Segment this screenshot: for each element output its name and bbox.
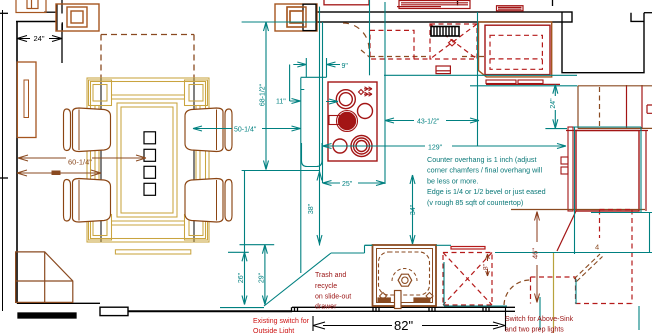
teal vert A x302 bbox=[301, 78, 305, 273]
arrow 46 bottom bbox=[535, 294, 540, 303]
post P2 inner redraw bbox=[290, 11, 303, 23]
wire left outer tick1 bbox=[0, 12, 8, 14]
dashed red upper counter bbox=[370, 24, 477, 59]
black placemat squares bbox=[144, 132, 156, 196]
arrowhead left82 bbox=[313, 322, 325, 329]
svg-text:38": 38" bbox=[308, 203, 315, 214]
control diamond bbox=[359, 90, 364, 95]
cabinet inner line bbox=[31, 0, 33, 9]
svg-text:8": 8" bbox=[483, 263, 490, 270]
DOOR ARC top-center brown dashed bbox=[343, 23, 485, 58]
dim line a bbox=[18, 157, 146, 159]
sink basin dashed bbox=[379, 252, 430, 295]
chair bottom-left seat bbox=[73, 179, 111, 223]
node dim extension x194 bbox=[193, 77, 195, 242]
sink bottom bar right bbox=[413, 297, 430, 302]
chair top-left seat bbox=[73, 108, 111, 152]
table outer frame bbox=[87, 78, 209, 242]
hutch inner detail bbox=[24, 80, 29, 118]
red shelf line bbox=[578, 127, 652, 129]
burner BR outer bbox=[351, 136, 372, 157]
sink drain arc dashed bbox=[392, 269, 417, 282]
red strip cabinet bbox=[568, 127, 573, 211]
sink bottom bar left bbox=[377, 297, 391, 302]
small red box inner line bbox=[436, 70, 450, 72]
dim 11 leader b bbox=[326, 99, 338, 104]
post TR bbox=[185, 80, 208, 106]
red counter line under fridge bbox=[486, 83, 560, 85]
arrowhead right bbox=[52, 36, 62, 42]
wall right jamb bbox=[631, 13, 644, 22]
burner BR mid bbox=[354, 138, 370, 154]
svg-text:50-1/4": 50-1/4" bbox=[234, 127, 257, 134]
placemat 4 bbox=[144, 183, 156, 195]
door threshold rect bbox=[100, 307, 128, 315]
grill box bbox=[431, 27, 459, 37]
pan handle bbox=[329, 116, 340, 125]
dw top bar bbox=[451, 247, 485, 250]
dim 38 arrows bbox=[317, 172, 322, 245]
teal vert x266 dim 68.5 bbox=[265, 22, 267, 170]
RIGHT SIDE FIXTURES bbox=[511, 85, 652, 251]
brown counter line right bbox=[511, 209, 645, 211]
wire left outer line bbox=[2, 10, 4, 311]
brown dim 60-1/4 upper bbox=[18, 155, 146, 161]
range hood rect bbox=[399, 1, 470, 9]
existing switch note bbox=[253, 318, 310, 333]
svg-text:on slide-out: on slide-out bbox=[315, 294, 351, 301]
dashed box B right bbox=[575, 277, 577, 304]
arrow 26 top bbox=[242, 252, 247, 261]
dashed counter box left bbox=[370, 30, 414, 59]
teal vert x478 bbox=[477, 12, 479, 146]
table rail top bbox=[111, 95, 184, 99]
dishwasher X diag 1 bbox=[430, 24, 477, 59]
dim 24r line bbox=[554, 85, 556, 129]
burner filled ring bbox=[337, 111, 358, 132]
burner BL bbox=[333, 139, 347, 153]
dim 29 line bbox=[264, 245, 266, 305]
arrow 46 top bbox=[535, 212, 540, 221]
arrow 26 bottom bbox=[242, 296, 247, 305]
arrow 29 bottom bbox=[262, 296, 267, 305]
cabinet top-left corner partial bbox=[16, 0, 46, 13]
olive vertical line bbox=[553, 253, 555, 333]
svg-text:24": 24" bbox=[550, 98, 557, 109]
arrow right a bbox=[136, 155, 146, 161]
teal box around red box bbox=[574, 127, 576, 254]
dashed red lower-right bbox=[531, 210, 633, 304]
door swing tail bbox=[361, 50, 370, 58]
svg-text:Switch for Above-Sink: Switch for Above-Sink bbox=[505, 316, 574, 323]
handle knob 2 bbox=[561, 167, 568, 174]
teal vert right end bbox=[649, 213, 651, 253]
grill black striped bbox=[431, 27, 459, 37]
wall top-left horizontal bbox=[16, 21, 56, 23]
wall left vertical bbox=[16, 22, 18, 304]
arrow 29 top bbox=[262, 245, 267, 254]
svg-text:and two prep lights: and two prep lights bbox=[505, 327, 564, 333]
dashed box B top bbox=[531, 276, 576, 278]
teal diag counter bbox=[264, 253, 331, 306]
svg-text:Trash and: Trash and bbox=[315, 272, 346, 279]
small red box below dishwasher bbox=[436, 66, 450, 74]
chair top-right seat bbox=[185, 108, 223, 152]
brown double dashed diagonal bbox=[574, 254, 603, 282]
wall band upper line left bbox=[44, 11, 57, 13]
svg-text:Edge is 1/4 or 1/2 bevel or ju: Edge is 1/4 or 1/2 bevel or just eased bbox=[427, 187, 546, 196]
counter U end bbox=[302, 143, 323, 167]
grill stripes bbox=[434, 27, 455, 36]
chair top-right seat line bbox=[216, 110, 218, 151]
arrow 129 right bbox=[557, 144, 566, 149]
fridge brown outer bbox=[479, 22, 552, 77]
arrow 50.25 right bbox=[292, 126, 301, 131]
dim 8 line bbox=[487, 254, 489, 276]
svg-text:drawer: drawer bbox=[315, 304, 337, 311]
brown dim b lower bbox=[17, 170, 101, 176]
dw dashed box bbox=[443, 253, 492, 306]
dim 129 line bbox=[323, 145, 567, 147]
node dim extension x101 bbox=[100, 77, 102, 242]
svg-text:34": 34" bbox=[410, 204, 417, 215]
dim 26 extension bbox=[228, 251, 249, 253]
brown dashed vert bbox=[599, 87, 601, 128]
column post P1 middle bbox=[67, 7, 87, 27]
arrow 43.5 left bbox=[385, 118, 394, 123]
sink top counter line bbox=[365, 244, 373, 246]
pilaster U top bbox=[301, 58, 327, 77]
column post P1 outer bbox=[56, 4, 99, 31]
chair top-left back bbox=[64, 109, 71, 151]
teal vert x370 bbox=[369, 0, 371, 75]
center solid mark bbox=[52, 171, 60, 175]
burner mid-right bbox=[358, 104, 373, 119]
wall notch below P1 bbox=[61, 22, 63, 30]
trash note bbox=[315, 272, 351, 311]
dw X 1 bbox=[443, 253, 492, 306]
column post P1 inner bbox=[71, 11, 83, 23]
cabinet inner bbox=[27, 0, 38, 9]
dim 50.25 line bbox=[193, 128, 301, 130]
teal vert x576 low bbox=[575, 279, 577, 304]
column post P2 outer bbox=[275, 4, 317, 31]
SINK bbox=[373, 245, 437, 309]
BROWN-FURNITURE-LEFT bbox=[16, 0, 317, 138]
svg-text:43-1/2": 43-1/2" bbox=[417, 119, 440, 126]
arrow 68.5 top bbox=[264, 22, 269, 31]
COOKTOP bbox=[328, 82, 377, 161]
red vent inner lines bbox=[498, 7, 522, 9]
chair top-left seat line bbox=[78, 110, 80, 151]
door swing arc bbox=[343, 23, 369, 49]
note paragraph bbox=[427, 155, 546, 207]
svg-text:25": 25" bbox=[342, 181, 353, 188]
wall top band bbox=[316, 12, 572, 22]
TEAL DIMENSION NETWORK bbox=[193, 0, 652, 330]
table outer frame inner bbox=[91, 82, 206, 239]
post BL bbox=[89, 215, 112, 241]
svg-text:29": 29" bbox=[259, 272, 266, 283]
svg-text:60-1/4": 60-1/4" bbox=[68, 158, 92, 167]
arrow 8 bottom bbox=[486, 271, 490, 276]
teal horiz y74 bbox=[384, 74, 577, 76]
svg-text:recycle: recycle bbox=[315, 283, 337, 290]
red counter line top-left bbox=[324, 0, 369, 5]
sink diamond left bbox=[380, 293, 387, 300]
arrow 25 right bbox=[376, 181, 385, 186]
svg-text:68-1/2": 68-1/2" bbox=[260, 83, 267, 106]
red diamond bbox=[449, 40, 456, 46]
teal ext y170.5 bbox=[242, 170, 320, 172]
dim line 24 bbox=[17, 38, 62, 40]
window mullion pair 4 bbox=[483, 307, 489, 311]
teal counter y252 bbox=[495, 252, 652, 254]
chair bottom-right back bbox=[225, 180, 232, 222]
table rail left bbox=[95, 105, 99, 215]
counter horiz y253 bbox=[331, 252, 365, 254]
burner BR inner bbox=[356, 141, 367, 152]
arrow 68.5 bottom bbox=[264, 161, 269, 170]
dim 9 left arrow bbox=[293, 62, 306, 67]
arrow right b bbox=[91, 170, 101, 176]
wall end cap left of opening bbox=[561, 12, 563, 22]
DIM-82 bottom black bbox=[313, 307, 506, 331]
sink drain circle bbox=[402, 277, 408, 283]
placemat 3 bbox=[144, 166, 156, 178]
column post P2 inner bbox=[290, 11, 303, 23]
chair bottom-left back bbox=[64, 180, 71, 222]
dim line 82 bbox=[323, 325, 498, 327]
dim 25 line bbox=[323, 182, 386, 184]
fridge red box bbox=[485, 25, 550, 74]
cooktop body bbox=[328, 82, 377, 161]
RED KITCHEN TOP bbox=[324, 0, 523, 74]
svg-text:be less or more.: be less or more. bbox=[427, 176, 479, 185]
red vert x637 bbox=[641, 85, 643, 129]
bench inner horizontal bbox=[16, 280, 73, 282]
dim 43.5 line bbox=[385, 120, 479, 122]
dashed island top bbox=[600, 209, 633, 211]
svg-text:corner chamfers / final overha: corner chamfers / final overhang will bbox=[427, 166, 542, 175]
window mullion pair 2 bbox=[373, 307, 379, 311]
dark red dim 46 bbox=[486, 212, 540, 303]
sink drain hex bbox=[398, 274, 412, 286]
svg-text:Existing switch for: Existing switch for bbox=[253, 318, 310, 325]
dashed soffit top bbox=[101, 34, 194, 36]
wall single line mid bbox=[128, 310, 292, 312]
chair bottom-left seat line bbox=[78, 180, 80, 221]
red vert right x646 bbox=[645, 131, 647, 212]
bench inner vertical bbox=[44, 252, 46, 303]
post BR bbox=[185, 215, 208, 241]
svg-text:129": 129" bbox=[428, 145, 443, 152]
fridge door bar right bbox=[518, 80, 543, 84]
svg-text:4: 4 bbox=[595, 243, 599, 252]
chair bottom-right seat line bbox=[216, 180, 218, 221]
fridge dashed mid line bbox=[490, 58, 542, 60]
wall cap at post P1 bbox=[56, 4, 58, 30]
arrow 43.5 right bbox=[470, 118, 479, 123]
dishwasher-top dashed box bbox=[430, 24, 477, 59]
range hood lines bbox=[397, 3, 468, 7]
table rail right bbox=[196, 105, 200, 215]
teal vert C x319 bbox=[322, 22, 324, 183]
sink inner bbox=[377, 249, 433, 303]
wall bottom left upper line bbox=[17, 302, 100, 304]
dishwasher X diag 2 bbox=[430, 24, 477, 59]
wall tick x458 top bbox=[457, 0, 459, 6]
window mullion pair 3 bbox=[429, 307, 435, 311]
dashed island bottom bbox=[576, 303, 633, 305]
placemat 2 bbox=[144, 149, 156, 161]
red vert x625 bbox=[626, 85, 628, 129]
DIM-24 top-left black bbox=[17, 36, 62, 42]
svg-text:26": 26" bbox=[238, 272, 245, 283]
red ledge line bbox=[566, 130, 648, 132]
above sink switch note bbox=[505, 316, 574, 333]
counter y245 left of sink bbox=[365, 244, 373, 246]
teal wall line trash region bbox=[220, 307, 264, 309]
svg-text:24": 24" bbox=[34, 34, 45, 43]
svg-text:9": 9" bbox=[342, 63, 349, 70]
counter step bbox=[364, 245, 366, 253]
burner TL inner bbox=[339, 93, 352, 106]
arrowhead left bbox=[17, 36, 27, 42]
teal vert x385 bbox=[384, 2, 386, 184]
dw X 2 bbox=[443, 253, 492, 306]
sink outer bbox=[373, 245, 437, 306]
dashed brown under dishwasher bbox=[370, 56, 485, 58]
dashed ceiling rect brown bbox=[101, 35, 194, 79]
teal horiz y22 bbox=[242, 21, 316, 23]
red bracket far right bbox=[647, 105, 652, 113]
red solid diagonal bbox=[557, 211, 576, 251]
table top inner rect bbox=[121, 107, 173, 213]
dashed island right bbox=[631, 210, 633, 304]
dashed soffit right bbox=[193, 35, 195, 79]
wire left outer tick2 bbox=[0, 177, 8, 179]
brown vert x578 bbox=[577, 86, 579, 129]
corner bench bottom-left brown bbox=[16, 252, 73, 303]
brown line under fridge right bbox=[578, 85, 652, 87]
svg-text:Counter overhang is 1 inch (ad: Counter overhang is 1 inch (adjust bbox=[427, 155, 536, 164]
dim 34 line bbox=[412, 175, 414, 244]
dim line b bbox=[17, 172, 101, 174]
arrow 34 bottom bbox=[410, 235, 415, 244]
dim 11 leader a bbox=[290, 99, 301, 104]
DISHWASHER bottom dashed bbox=[443, 247, 492, 306]
bench outline bbox=[16, 252, 73, 303]
teal vert B x315.5 bbox=[319, 7, 321, 246]
window mullion pair 1 bbox=[292, 307, 298, 311]
svg-text:Outside Light: Outside Light bbox=[253, 328, 294, 333]
leader leg vertical bbox=[289, 65, 291, 102]
placemat 1 bbox=[144, 132, 156, 144]
wall jamb x62 upper bbox=[61, 0, 63, 14]
arrow left a bbox=[18, 155, 28, 161]
chair bottom-right seat bbox=[185, 179, 223, 223]
dashed box B left bbox=[530, 277, 532, 304]
teal vert x444 bbox=[443, 262, 445, 306]
teal vert x639 low bbox=[638, 306, 640, 330]
arrow 8 top bbox=[486, 254, 490, 259]
teal horiz y306 bbox=[444, 305, 507, 307]
svg-text:11": 11" bbox=[276, 99, 286, 106]
control arrows icon bbox=[364, 89, 372, 94]
red vent rect right bbox=[497, 6, 524, 11]
fridge door bar left bbox=[486, 80, 516, 84]
arrow 129 left bbox=[323, 144, 332, 149]
dashed soffit left bbox=[100, 35, 102, 79]
wall top right segment bbox=[644, 12, 652, 14]
arrow 24r top bbox=[553, 85, 558, 94]
TABLE tan bbox=[87, 78, 209, 254]
wall window band bottom line bbox=[292, 310, 515, 312]
arrow 24r bottom bbox=[553, 119, 558, 128]
fridge dashed box bbox=[490, 35, 542, 69]
handle knob 1 bbox=[561, 157, 568, 164]
brown dashed arc trash bbox=[504, 280, 530, 305]
dashed island left bbox=[599, 210, 601, 239]
wall alcove U outline bbox=[562, 13, 644, 73]
post P2 middle redraw bbox=[287, 7, 306, 27]
dim 9 right arrow bbox=[327, 62, 341, 67]
bench bar below table bbox=[115, 250, 190, 254]
ext line x313 bbox=[312, 316, 314, 331]
ext line x505 bbox=[505, 307, 507, 331]
CHAIRS brown bbox=[64, 108, 233, 222]
dim 46 line bbox=[536, 212, 538, 303]
svg-text:46": 46" bbox=[531, 248, 540, 259]
column post P2 middle bbox=[287, 7, 306, 27]
svg-text:(v rough 85 sqft of countertop: (v rough 85 sqft of countertop) bbox=[427, 198, 523, 207]
red big box bbox=[576, 131, 639, 212]
wall window band top line bbox=[292, 306, 515, 308]
teal vert x244 bbox=[244, 171, 246, 305]
FRIDGE bbox=[479, 22, 561, 85]
post TL bbox=[89, 80, 112, 106]
counter y245 right of sink bbox=[436, 244, 451, 246]
teal vert x540 low bbox=[539, 297, 541, 330]
burner filled bbox=[339, 113, 356, 130]
sink diamond right bbox=[426, 293, 433, 300]
teal ext y128.6 bbox=[545, 128, 567, 130]
sink faucet rect bbox=[395, 291, 402, 309]
wall solid bar bottom-left bbox=[18, 313, 76, 318]
wall tick x552 top bbox=[552, 0, 554, 6]
node doorway edge x62 bbox=[61, 24, 63, 64]
arrow left b bbox=[17, 170, 27, 176]
teal ext tick y240.6 bbox=[240, 244, 275, 246]
teal horiz y86 fridge bbox=[470, 85, 578, 87]
table rail bottom bbox=[111, 221, 184, 225]
teal horiz y212 right bbox=[591, 212, 652, 214]
arrow 50.25 left bbox=[193, 126, 202, 131]
svg-text:82": 82" bbox=[394, 318, 413, 333]
table top rect bbox=[117, 103, 177, 217]
arrow 25 left bbox=[323, 181, 332, 186]
arrowhead right82 bbox=[493, 322, 505, 329]
hutch left wall bbox=[17, 62, 36, 138]
arrow 34 top bbox=[410, 175, 415, 184]
burner TL outer bbox=[336, 90, 355, 109]
wall end cap at post P2 bbox=[303, 4, 316, 30]
chair top-right back bbox=[225, 109, 232, 151]
dashed counter bottom extension bbox=[414, 58, 430, 60]
